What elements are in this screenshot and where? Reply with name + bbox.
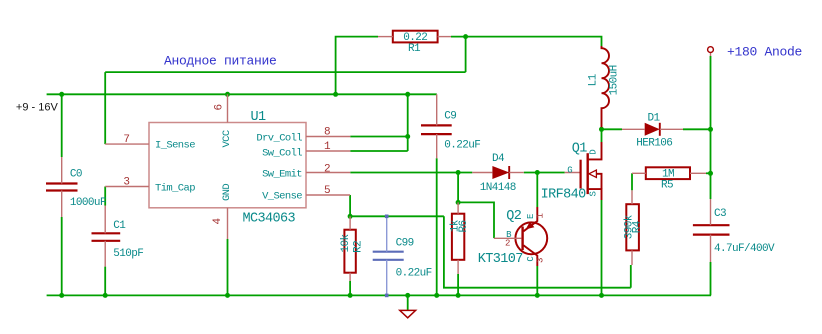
svg-text:Sw_Emit: Sw_Emit	[262, 169, 302, 181]
Q2 base bar	[521, 227, 523, 251]
wire top +9-16V rail	[47, 93, 437, 95]
svg-text:VCC: VCC	[221, 130, 233, 147]
Q1 source stub	[589, 189, 602, 200]
junction dot gnd rail/C9	[434, 293, 439, 298]
U1 pin 3 lead	[105, 186, 149, 188]
svg-text:0.22uF: 0.22uF	[444, 140, 480, 152]
svg-text:C9: C9	[444, 111, 456, 123]
wire pin8 to VCC branch	[350, 136, 407, 138]
svg-text:5: 5	[324, 185, 330, 197]
resistor R4 body	[626, 204, 639, 250]
junction dot R5/output	[708, 171, 713, 176]
R6 top lead	[457, 202, 459, 213]
junction dot R6-top/Q2-base	[456, 200, 461, 205]
+180 Anode output port circle	[708, 47, 714, 53]
junction dot V_Sense/R2	[348, 214, 353, 219]
svg-text:C3: C3	[714, 208, 726, 220]
svg-text:1: 1	[324, 141, 331, 153]
D1 cathode bar	[659, 123, 661, 136]
svg-text:6: 6	[214, 104, 226, 110]
Q1 arrow head	[589, 170, 597, 177]
wire Q1 drain up to node	[601, 129, 603, 142]
junction dot gnd rail/Q2 collector	[535, 293, 540, 298]
svg-text:3: 3	[535, 258, 545, 263]
svg-text:D1: D1	[647, 113, 660, 125]
junction dot Sw_Emit/Q2 emitter	[535, 170, 540, 175]
svg-text:C1: C1	[113, 220, 126, 232]
U1 pin 4 lead	[227, 208, 229, 239]
svg-text:R6: R6	[458, 220, 470, 232]
capacitor C3 plates	[693, 224, 730, 226]
svg-text:R2: R2	[352, 241, 364, 253]
R6 bottom lead	[457, 260, 459, 274]
capacitor C9 plates	[421, 124, 452, 126]
capacitor C1 plates	[92, 232, 121, 234]
resistor R2 body	[344, 230, 355, 273]
op-amp U1 MC34063 body	[149, 123, 306, 208]
wire R5 right stub	[706, 172, 711, 174]
R5 right lead	[690, 172, 706, 174]
svg-text:HER106: HER106	[636, 138, 672, 150]
Q1 gate bar	[579, 160, 581, 189]
svg-text:L1: L1	[588, 73, 600, 86]
wire bottom ground rail	[47, 294, 711, 296]
Q1 drain stub	[589, 142, 602, 159]
svg-text:C0: C0	[70, 169, 82, 181]
svg-text:10k: 10k	[340, 234, 352, 253]
U1 pin 7 lead	[105, 143, 149, 145]
wire R6 bottom to rail	[457, 274, 459, 295]
U1 pin 8 lead	[306, 136, 350, 138]
wire feedback up to R4 bottom	[630, 265, 632, 288]
wire C9 bottom to rail	[436, 158, 438, 295]
C1 top lead	[104, 206, 106, 234]
C9 bottom lead	[436, 134, 438, 158]
junction dot D1 cathode/output	[708, 127, 713, 132]
junction dot pin8/pin1 tie	[405, 134, 410, 139]
Q1 middle tap	[596, 174, 601, 189]
R5 left lead	[632, 172, 646, 174]
svg-text:+9 - 16V: +9 - 16V	[16, 102, 59, 114]
svg-text:Drv_Coll: Drv_Coll	[256, 133, 302, 145]
R1 right lead	[438, 36, 451, 38]
wire C0 bottom to rail	[61, 217, 63, 295]
junction dot gnd rail/ground symbol	[405, 293, 410, 298]
svg-text:Tim_Cap: Tim_Cap	[155, 183, 195, 195]
transistor Q1 IRF840 gate lead	[565, 172, 581, 174]
wire anode-net right vertical up to R1 right	[465, 37, 467, 73]
resistor R1 body	[393, 31, 438, 43]
wire pin4 GND to rail	[227, 239, 229, 295]
wire Sw_Emit run to D4	[350, 172, 472, 174]
resistor R5 body	[646, 167, 690, 179]
R4 bottom lead	[631, 250, 633, 265]
wire R2 bottom to rail	[349, 281, 351, 295]
svg-text:4: 4	[212, 218, 224, 225]
junction dot rail/VCC-branch	[405, 92, 410, 97]
wire Q1 source down to rail	[601, 200, 603, 295]
svg-text:1: 1	[535, 213, 545, 218]
C3 bottom lead	[710, 235, 712, 262]
svg-text:0.22uF: 0.22uF	[396, 268, 432, 280]
wire Q2 collector to rail	[536, 266, 538, 295]
C99 endpoint square top	[385, 215, 389, 219]
U1 pin 2 lead	[306, 172, 350, 174]
svg-text:U1: U1	[251, 110, 267, 125]
svg-text:D4: D4	[492, 153, 505, 165]
svg-text:Q1: Q1	[572, 142, 588, 157]
wire C1 bottom to rail	[104, 267, 106, 296]
Q2 collector diagonal	[523, 245, 537, 266]
R1 left lead	[378, 36, 393, 38]
U1 pin 5 lead	[306, 194, 350, 196]
svg-text:2: 2	[324, 163, 330, 175]
wire R5 left to R4 top	[631, 173, 633, 190]
C3 top lead	[710, 199, 712, 225]
wire anode-net horizontal (under label)	[105, 71, 465, 73]
C1 bottom lead	[104, 241, 106, 267]
junction dot gnd rail/pin4	[225, 293, 230, 298]
wire anode-net left vertical to pin7	[104, 72, 106, 144]
svg-text:GND: GND	[221, 184, 233, 201]
capacitor C0 plates	[46, 182, 78, 184]
wire C0 top branch	[61, 94, 63, 157]
junction dot gnd rail/C1	[103, 293, 108, 298]
svg-text:KT3107: KT3107	[478, 252, 524, 267]
+180 port stub	[710, 53, 712, 57]
junction dot Sw_Emit/R6	[456, 170, 461, 175]
junction dot gnd rail/R6	[456, 293, 461, 298]
diode D4 1N4148	[492, 166, 509, 179]
svg-text:MC34063: MC34063	[243, 212, 296, 227]
svg-text:R4: R4	[631, 220, 643, 233]
junction dot gnd rail/C0	[59, 293, 64, 298]
C0 top lead	[61, 157, 63, 184]
U1 pin 6 lead	[227, 94, 229, 122]
junction dot rail/pin6	[225, 92, 230, 97]
wire output vertical from +180 port	[710, 56, 712, 199]
svg-text:G: G	[567, 166, 572, 176]
svg-text:R1: R1	[408, 43, 421, 55]
transistor Q2 KT3107 circle	[515, 222, 547, 254]
svg-text:4.7uF/400V: 4.7uF/400V	[714, 243, 775, 255]
C99 bottom lead (blue)	[386, 260, 388, 296]
R2 top lead	[349, 216, 351, 229]
junction dot L1/Q1 drain/D1	[599, 127, 604, 132]
R4 top lead	[631, 190, 633, 204]
svg-text:1000uF: 1000uF	[70, 197, 106, 209]
Q2 base lead	[494, 237, 521, 239]
svg-text:Анодное питание: Анодное питание	[164, 53, 277, 68]
D4 anode lead	[472, 172, 492, 174]
svg-text:510pF: 510pF	[113, 248, 143, 260]
C9 top lead	[436, 94, 438, 125]
wire V_Sense feedback L-run	[444, 216, 631, 287]
U1 pin 1 lead	[306, 150, 350, 152]
junction dot R1 right node	[463, 34, 468, 39]
D1 cathode lead	[660, 128, 683, 130]
C99 endpoint square bottom	[385, 294, 389, 298]
svg-text:C99: C99	[396, 238, 414, 250]
svg-text:I_Sense: I_Sense	[155, 140, 195, 152]
D1 anode lead	[622, 128, 645, 130]
wire Q2 emitter up	[536, 173, 538, 208]
svg-text:8: 8	[324, 127, 330, 139]
svg-text:S: S	[589, 192, 599, 197]
inductor L1 150uH	[602, 46, 610, 127]
D4 cathode bar	[508, 166, 510, 179]
svg-text:1N4148: 1N4148	[480, 182, 516, 194]
wire R1 left to rail vertical	[336, 37, 378, 95]
wire R6 top to Q2 base	[458, 202, 494, 238]
junction dot gnd rail/R2	[348, 293, 353, 298]
C0 bottom lead	[61, 191, 63, 218]
wire L1 bottom node to D1 anode	[602, 128, 623, 130]
resistor R6 body	[452, 214, 464, 260]
svg-text:Sw_Coll: Sw_Coll	[262, 148, 302, 160]
junction dot gnd rail/Q1 source	[599, 293, 604, 298]
svg-text:R5: R5	[661, 179, 673, 191]
svg-text:150uH: 150uH	[608, 65, 620, 95]
D4 cathode lead	[509, 172, 524, 174]
wire V_Sense horizontal	[350, 215, 444, 217]
svg-text:Q2: Q2	[506, 209, 522, 224]
junction dot rail/R1-left	[333, 92, 338, 97]
wire pin1 to VCC branch	[350, 150, 407, 152]
svg-text:7: 7	[123, 134, 129, 146]
ground symbol	[407, 295, 409, 310]
capacitor C99 (selected, blue) plates	[373, 251, 404, 253]
wire R6 branch vertical	[457, 173, 459, 203]
wire output vertical to C3 bottom / rail	[710, 262, 712, 295]
junction dot rail/C0	[59, 92, 64, 97]
Q2 emitter arrow (points to base)	[526, 222, 535, 230]
C99 top lead (blue)	[386, 216, 388, 251]
svg-text:IRF840: IRF840	[541, 188, 587, 203]
wire pin5 corner down	[349, 195, 351, 216]
svg-text:3: 3	[123, 177, 129, 189]
R2 bottom lead	[349, 273, 351, 281]
wire D4 cathode to Q1 gate	[524, 172, 565, 174]
diode D1 HER106	[645, 123, 660, 136]
wire VCC branch vertical	[407, 94, 409, 151]
wire R1 right to L1 top	[451, 37, 602, 46]
Q1 channel bar	[587, 153, 589, 194]
svg-text:2: 2	[505, 239, 510, 249]
svg-text:D: D	[589, 150, 599, 155]
svg-text:V_Sense: V_Sense	[262, 191, 302, 203]
Q2 emitter diagonal	[523, 207, 537, 231]
wire D1 cathode to output	[683, 128, 711, 130]
wire C1 top green segment	[104, 187, 106, 206]
svg-text:+180 Anode: +180 Anode	[727, 45, 802, 60]
